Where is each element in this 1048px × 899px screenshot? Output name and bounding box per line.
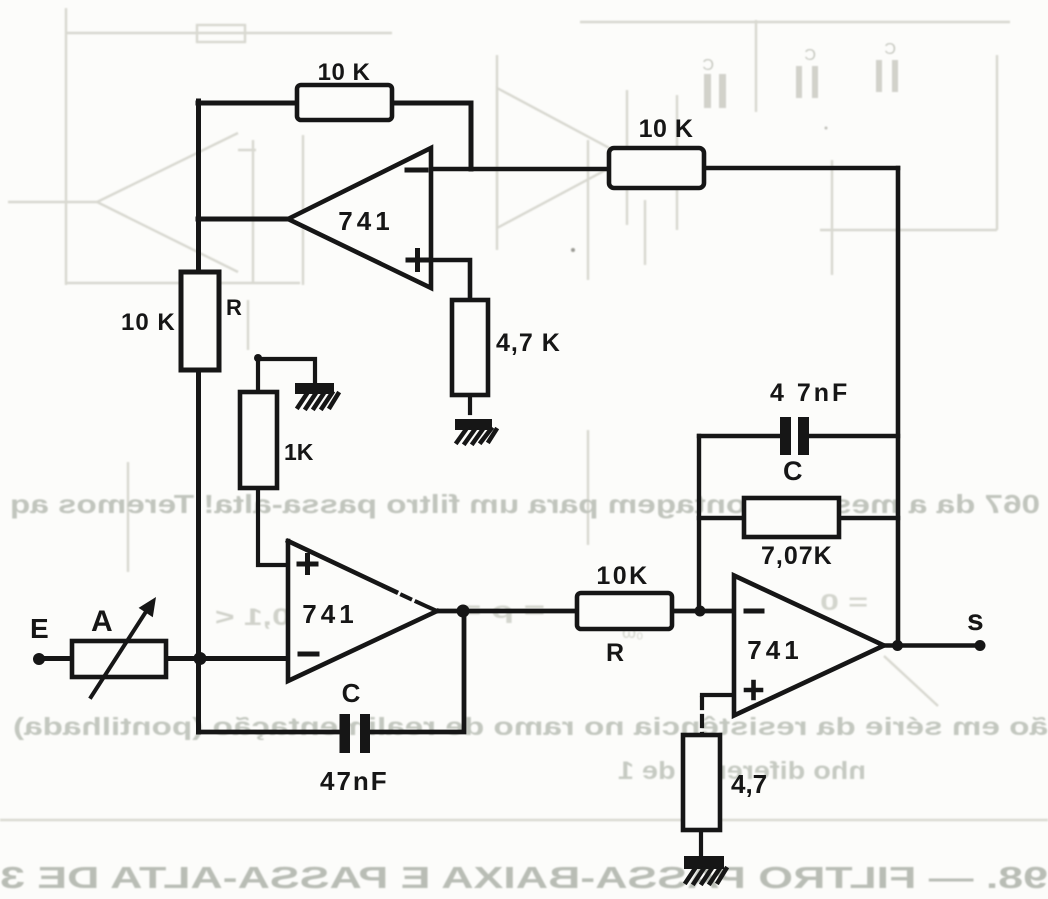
label: C1 value 47nF	[320, 766, 389, 796]
op-amp U3 741 (points right)	[734, 576, 884, 716]
resistor R6 7,07K	[744, 498, 839, 537]
svg-text:10 K: 10 K	[318, 59, 371, 86]
pin: U3 inverting input minus	[746, 609, 762, 614]
wire: U2 output to resistor R (10K mid)	[437, 609, 577, 614]
svg-text:067 da a mesma montagem para u: 067 da a mesma montagem para um filtro p…	[10, 489, 1040, 519]
label: C2 value 4 7nF	[770, 379, 850, 407]
svg-text:741: 741	[747, 635, 802, 665]
potentiometer A (variable resistor)	[72, 597, 166, 697]
capacitor C2 4 7nF (right feedback)	[780, 417, 809, 455]
op-amp U2 741 (points right, top edge partly dashed)	[288, 541, 437, 681]
label: R6 value 7,07K	[761, 542, 833, 570]
svg-text:A: A	[91, 605, 113, 638]
svg-text:R: R	[226, 295, 242, 320]
svg-text:ão em série da resistência no: ão em série da resistência no ramo de re…	[13, 713, 1048, 741]
wire: bottom feedback run to capacitor C1	[199, 730, 339, 735]
svg-text:C: C	[884, 41, 896, 58]
svg-text:4,7 K: 4,7 K	[496, 329, 561, 357]
wire: left vertical bus from top feedback to bottom feedback corner	[196, 101, 201, 732]
wire: 1K top to ground branch	[258, 359, 315, 392]
label: left resistor value 10 K	[121, 309, 176, 336]
label: R5 value 10K	[596, 562, 649, 590]
label: C2 designator C	[783, 456, 803, 486]
label: C1 designator C	[342, 678, 361, 708]
svg-text:E: E	[30, 613, 49, 644]
wire: 4,7K bottom stub to ground	[468, 395, 472, 413]
label: U3 value 741	[747, 635, 802, 665]
wire: resistor 4,7 bottom to ground	[699, 830, 703, 858]
resistor R5 10K middle	[577, 593, 672, 629]
resistor R3 4,7K	[452, 300, 488, 395]
resistor R2 10K top right	[609, 148, 704, 188]
pin: U1 non-inverting input plus	[408, 251, 427, 270]
wire: U1 non-inverting input to resistor 4,7K	[431, 260, 470, 300]
wire: input E to potentiometer A	[39, 656, 72, 661]
label: input E	[30, 613, 49, 644]
label: R1 value 10 K	[318, 59, 371, 86]
svg-text:C: C	[804, 47, 816, 64]
svg-text:C: C	[783, 456, 803, 486]
node: U3 inverting input junction	[695, 606, 706, 617]
wire: top feedback left segment	[198, 101, 297, 106]
svg-text:= 0: = 0	[820, 589, 868, 615]
pin: U2 non-inverting input plus	[299, 556, 316, 573]
pin: U3 non-inverting input plus	[746, 682, 761, 698]
wire: U3 output to terminal s	[884, 643, 979, 648]
svg-text:741: 741	[302, 599, 357, 629]
ground: GND3 (4,7 branch) hatched	[684, 856, 726, 883]
wire: top feedback right segment with drop to inverting input	[392, 103, 471, 169]
terminal: output s dot	[975, 640, 986, 651]
wire: potentiometer A to U2 inverting input through node	[166, 656, 288, 661]
svg-text:s: s	[967, 604, 984, 637]
node: U2 output junction	[457, 605, 470, 618]
wire: resistor R2 to right vertical bus	[704, 166, 898, 171]
wire: capacitor C2 left lead	[699, 434, 780, 438]
wire: capacitor C1 to feedback right vertical	[369, 611, 464, 732]
pin: U1 inverting input minus	[407, 168, 426, 173]
pin: U2 inverting input minus	[300, 652, 317, 657]
wire: 1K bottom to U2 non-inverting input	[258, 488, 288, 565]
node: 1K top junction blob	[254, 354, 262, 362]
label: left resistor designator R	[226, 295, 242, 320]
label: potentiometer designator A	[91, 605, 113, 638]
svg-text:4,7: 4,7	[731, 769, 767, 799]
resistor R1 10K top feedback	[297, 85, 392, 120]
wire: resistor R to U3 inverting input	[672, 609, 734, 614]
svg-text:C: C	[342, 678, 361, 708]
node: input junction on left bus	[194, 652, 207, 665]
wire: right vertical bus down to U3 output node	[896, 168, 901, 645]
svg-text:10 K: 10 K	[121, 309, 176, 336]
svg-text:10 K: 10 K	[639, 115, 694, 143]
label: U1 value 741	[338, 206, 393, 236]
svg-text:47nF: 47nF	[320, 766, 389, 796]
wire: capacitor C2 right lead to right bus	[809, 434, 898, 438]
svg-text:98. — FILTRO PASSA-BAIXA E PAS: 98. — FILTRO PASSA-BAIXA E PASSA-ALTA DE…	[0, 860, 1048, 895]
svg-text:10K: 10K	[596, 562, 649, 590]
resistor R 10K vertical left	[181, 272, 219, 370]
resistor R7 4,7	[683, 735, 720, 830]
svg-text:7,07K: 7,07K	[761, 542, 833, 570]
svg-text:741: 741	[338, 206, 393, 236]
label: output s	[967, 604, 984, 637]
resistor R4 1K	[240, 392, 277, 488]
label: R2 value 10 K	[639, 115, 694, 143]
wire: 7,07K left lead	[699, 516, 744, 520]
svg-text:1K: 1K	[284, 439, 314, 465]
label: R5 designator R	[606, 639, 624, 667]
label: R4 value 1K	[284, 439, 314, 465]
ground: GND2 (4,7K branch) hatched	[455, 419, 496, 443]
node: U3 output junction on right bus	[892, 640, 903, 651]
capacitor C1 47nF (middle feedback)	[340, 714, 371, 753]
label: U2 value 741	[302, 599, 357, 629]
wire: op-amp U1 inverting input to resistor 10K (R2)	[431, 167, 609, 172]
svg-text:R: R	[606, 639, 624, 667]
wire: U1 output to left bus	[198, 217, 288, 222]
op-amp U1 741 (points left)	[288, 148, 431, 288]
wire: 7,07K right lead to right bus	[839, 516, 898, 520]
label: R7 value 4,7	[731, 769, 767, 799]
wire: U3 non-inverting input to resistor 4,7 (dashed drop)	[702, 695, 734, 735]
svg-text:C: C	[702, 57, 714, 74]
ground: GND1 (1K branch) hatched	[295, 383, 338, 408]
wire: node vertical up to feedback network of U3	[697, 436, 701, 611]
svg-text:4 7nF: 4 7nF	[770, 379, 850, 407]
terminal: input E dot	[33, 653, 45, 665]
label: R3 value 4,7 K	[496, 329, 561, 357]
